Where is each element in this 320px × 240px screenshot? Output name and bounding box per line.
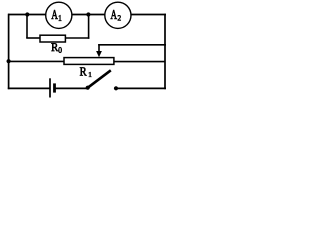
wire bottom-right segment from switch <box>116 87 166 89</box>
switch right contact dot <box>114 86 118 90</box>
wire riser up to junction between A1 and A2 <box>88 15 90 39</box>
wire into R0 left <box>26 37 40 39</box>
wire top-middle segment between A1 and A2 <box>72 14 105 16</box>
label R0 <box>51 43 61 52</box>
node junction dot left of A1 <box>25 12 29 16</box>
resistor R0 <box>40 35 65 42</box>
battery negative short thick plate <box>53 83 56 92</box>
rheostat slider arrowhead <box>96 51 102 57</box>
node junction dot on left vertical <box>7 59 11 63</box>
label R1 <box>80 67 92 76</box>
wire bottom segment battery to switch <box>55 87 88 89</box>
rheostat slider wire to right vertical <box>98 44 166 46</box>
wire bottom-left segment to battery <box>8 87 50 89</box>
wire top-right segment <box>131 14 166 16</box>
rheostat slider arrow stem <box>98 44 100 52</box>
wire from R1 right <box>114 61 166 63</box>
ammeter A1 <box>46 2 72 28</box>
switch left contact dot <box>86 86 90 90</box>
ammeter A2 <box>105 2 131 28</box>
battery positive long plate <box>49 78 51 97</box>
wire left vertical <box>8 14 10 90</box>
wire drop from junction to R0 branch <box>26 15 28 39</box>
wire from R0 right <box>65 37 89 39</box>
rheostat R1 body <box>64 58 114 65</box>
wire into rheostat R1 left <box>9 60 64 62</box>
wire top-left segment <box>8 14 46 16</box>
node junction dot between A1 and A2 <box>86 12 90 16</box>
switch lever blade <box>88 70 111 87</box>
wire right vertical <box>164 14 166 90</box>
